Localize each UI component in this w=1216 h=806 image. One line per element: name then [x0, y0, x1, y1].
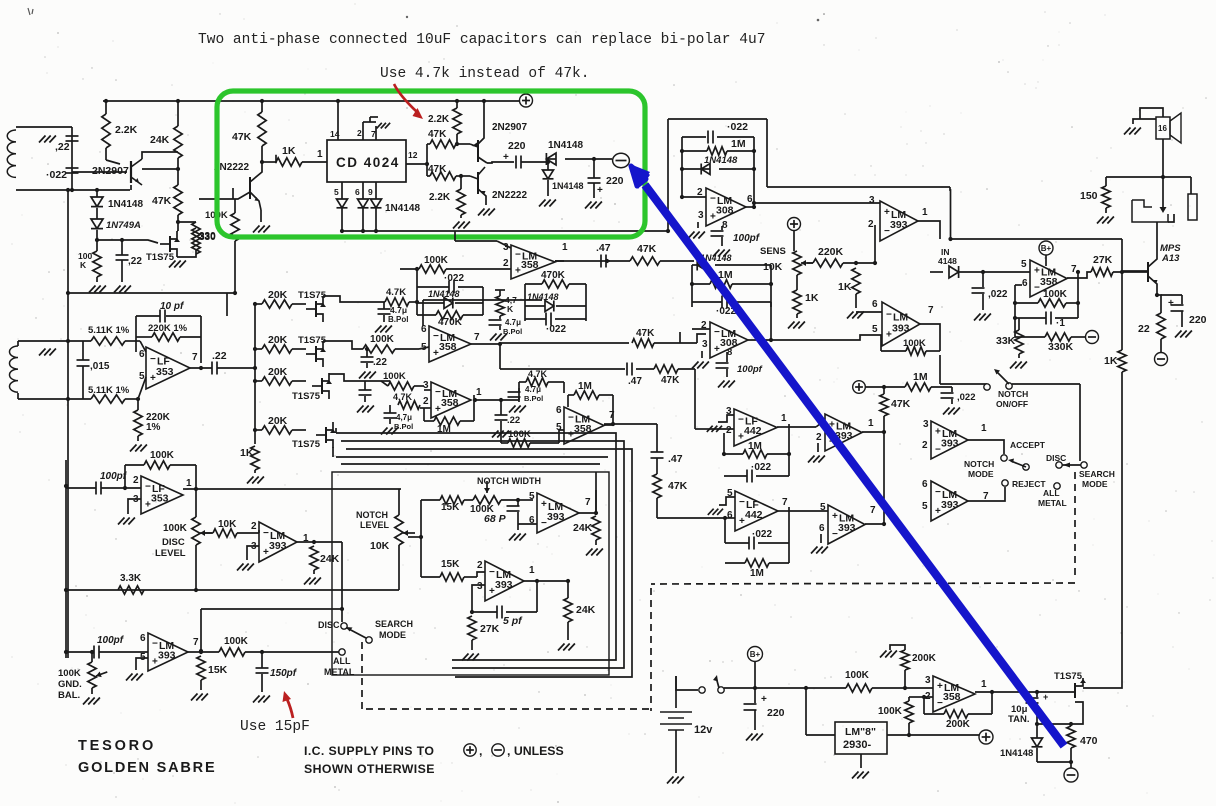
svg-text:1: 1 [981, 679, 987, 690]
svg-text:,022: ,022 [957, 392, 976, 403]
svg-text:1M: 1M [578, 381, 592, 392]
svg-text:CD 4024: CD 4024 [336, 155, 400, 170]
svg-text:6: 6 [1022, 278, 1028, 289]
svg-text:200K: 200K [946, 719, 971, 730]
svg-text:7: 7 [870, 505, 876, 516]
svg-text:3: 3 [702, 339, 708, 350]
svg-text:2.2K: 2.2K [115, 124, 138, 136]
svg-text:393: 393 [838, 522, 856, 534]
svg-text:2930-: 2930- [843, 739, 871, 751]
svg-text:358: 358 [441, 397, 459, 409]
svg-text:B.Pol: B.Pol [394, 422, 413, 431]
svg-text:220K 1%: 220K 1% [148, 323, 188, 334]
svg-text:7: 7 [192, 352, 198, 363]
svg-text:Use 4.7k instead of 47k.: Use 4.7k instead of 47k. [380, 66, 590, 82]
svg-text:100K: 100K [150, 450, 175, 461]
svg-text:14: 14 [330, 129, 340, 139]
svg-text:393: 393 [890, 219, 908, 231]
svg-text:470K: 470K [541, 270, 566, 281]
svg-text:+: + [761, 694, 767, 705]
svg-text:·022: ·022 [46, 169, 67, 181]
svg-text:NOTCH: NOTCH [964, 459, 994, 469]
svg-text:2: 2 [726, 425, 732, 436]
svg-text:−: − [738, 414, 744, 425]
svg-text:·1: ·1 [1056, 318, 1065, 329]
svg-text:ALL: ALL [1043, 488, 1060, 498]
svg-text:6: 6 [139, 349, 145, 360]
svg-text:GND.: GND. [58, 679, 82, 690]
svg-text:T1S75: T1S75 [292, 439, 321, 450]
svg-text:100K: 100K [224, 636, 249, 647]
svg-text:, UNLESS: , UNLESS [507, 744, 564, 758]
svg-text:TAN.: TAN. [1008, 714, 1029, 725]
svg-text:−: − [150, 354, 156, 365]
svg-text:1%: 1% [146, 422, 161, 433]
svg-text:I.C. SUPPLY PINS TO: I.C. SUPPLY PINS TO [304, 744, 434, 758]
svg-text:5: 5 [139, 371, 145, 382]
svg-text:·022: ·022 [546, 324, 566, 335]
svg-text:20K: 20K [268, 334, 288, 346]
svg-text:6: 6 [872, 299, 878, 310]
svg-text:100pf: 100pf [97, 635, 125, 646]
svg-text:47K: 47K [428, 164, 447, 175]
svg-text:6: 6 [355, 187, 360, 197]
svg-text:2: 2 [868, 219, 874, 230]
svg-text:1M: 1M [731, 138, 746, 150]
svg-text:1M: 1M [748, 441, 762, 452]
svg-text:4,7μ: 4,7μ [396, 413, 412, 422]
svg-text:A13: A13 [1161, 253, 1180, 264]
svg-text:1K: 1K [282, 145, 296, 157]
svg-text:12: 12 [408, 150, 418, 160]
svg-text:2: 2 [133, 475, 139, 486]
svg-text:1M: 1M [913, 371, 928, 383]
svg-text:24K: 24K [576, 604, 596, 616]
svg-text:LM"8": LM"8" [845, 726, 876, 738]
svg-text:SEARCH: SEARCH [1079, 469, 1115, 479]
svg-text:T1S75: T1S75 [298, 290, 327, 301]
svg-text:·022: ·022 [751, 462, 771, 473]
svg-text:METAL: METAL [324, 667, 355, 677]
svg-text:2.2K: 2.2K [428, 114, 450, 125]
svg-text:6: 6 [819, 523, 825, 534]
svg-text:3: 3 [925, 675, 931, 686]
svg-text:47K: 47K [668, 480, 688, 492]
svg-text:−: − [568, 412, 574, 423]
svg-text:68 P: 68 P [484, 513, 507, 525]
svg-text:GOLDEN SABRE: GOLDEN SABRE [78, 760, 216, 776]
svg-text:·022: ·022 [727, 121, 748, 133]
svg-text:K: K [80, 260, 87, 270]
svg-text:SENS: SENS [760, 246, 786, 257]
svg-text:5: 5 [872, 324, 878, 335]
svg-text:2: 2 [251, 521, 257, 532]
svg-text:470: 470 [1080, 735, 1098, 747]
svg-text:B.Pol: B.Pol [388, 315, 408, 324]
svg-text:2N2907: 2N2907 [92, 165, 129, 177]
svg-text:·022: ·022 [444, 273, 464, 284]
svg-text:9: 9 [368, 187, 373, 197]
svg-text:220: 220 [1189, 314, 1207, 326]
svg-text:MODE: MODE [1082, 479, 1108, 489]
svg-text:+: + [597, 185, 603, 196]
svg-text:4.7μ: 4.7μ [525, 385, 541, 394]
svg-text:27K: 27K [480, 623, 500, 635]
svg-text:1: 1 [186, 478, 192, 489]
svg-text:15K: 15K [441, 502, 460, 513]
svg-text:B+: B+ [1041, 244, 1052, 253]
svg-text:7: 7 [371, 129, 376, 139]
svg-text:393: 393 [892, 322, 910, 334]
svg-text:−: − [145, 482, 151, 493]
svg-text:2: 2 [816, 432, 822, 443]
svg-text:5: 5 [421, 342, 427, 353]
svg-text:2.2K: 2.2K [429, 192, 451, 203]
svg-text:3: 3 [477, 581, 483, 592]
svg-text:1K: 1K [838, 281, 852, 293]
svg-text:.22: .22 [373, 357, 387, 368]
svg-text:8: 8 [722, 220, 728, 231]
svg-text:1N4148: 1N4148 [552, 181, 584, 191]
svg-text:353: 353 [151, 492, 169, 504]
svg-text:24K: 24K [573, 522, 593, 534]
svg-text:1N4148: 1N4148 [108, 199, 143, 210]
svg-text:5.11K 1%: 5.11K 1% [88, 325, 130, 336]
svg-text:.47: .47 [596, 242, 611, 254]
svg-text:−: − [489, 567, 495, 578]
svg-text:+: + [1168, 298, 1174, 309]
svg-text:100K: 100K [163, 523, 188, 534]
svg-text:2N2907: 2N2907 [492, 122, 527, 133]
svg-text:3: 3 [698, 210, 704, 221]
svg-text:353: 353 [156, 366, 174, 378]
svg-text:150pf: 150pf [270, 668, 298, 679]
svg-text:+: + [832, 511, 838, 522]
svg-text:100K: 100K [845, 670, 870, 681]
svg-text:47K: 47K [661, 375, 680, 386]
svg-text:47K: 47K [891, 398, 911, 410]
svg-text:B.Pol: B.Pol [503, 327, 522, 336]
svg-text:+: + [935, 427, 941, 438]
svg-text:T1S75: T1S75 [292, 391, 321, 402]
svg-text:1: 1 [868, 418, 874, 429]
svg-text:+: + [541, 499, 547, 510]
svg-text:DISC: DISC [162, 537, 185, 548]
svg-text:200K: 200K [912, 653, 937, 664]
svg-text:2: 2 [477, 560, 483, 571]
svg-text:358: 358 [1040, 276, 1058, 288]
svg-text:1: 1 [317, 149, 323, 160]
svg-text:1: 1 [781, 413, 787, 424]
svg-text:100K: 100K [878, 706, 903, 717]
svg-text:NOTCH: NOTCH [356, 510, 388, 520]
svg-text:47K: 47K [428, 129, 447, 140]
svg-text:220: 220 [767, 707, 785, 719]
svg-text:6: 6 [421, 324, 427, 335]
svg-text:220: 220 [606, 175, 624, 187]
svg-text:Two anti-phase connected 10uF: Two anti-phase connected 10uF capacitors… [198, 32, 765, 48]
svg-text:100pf: 100pf [100, 471, 128, 482]
svg-text:100K: 100K [1043, 289, 1068, 300]
svg-text:393: 393 [941, 437, 959, 449]
svg-text:DISC: DISC [318, 620, 340, 630]
svg-text:24K: 24K [150, 134, 170, 146]
svg-text:1N4148: 1N4148 [1000, 748, 1033, 759]
svg-text:5 pf: 5 pf [503, 615, 523, 627]
svg-text:47K: 47K [636, 328, 655, 339]
svg-text:6: 6 [727, 510, 733, 521]
svg-text:K: K [507, 304, 514, 314]
svg-text:393: 393 [269, 540, 287, 552]
svg-text:.22: .22 [507, 415, 520, 426]
svg-text:.22: .22 [212, 350, 227, 362]
svg-text:5: 5 [1021, 259, 1027, 270]
svg-text:2: 2 [922, 440, 928, 451]
svg-text:4.7K: 4.7K [386, 287, 406, 298]
svg-text:1: 1 [529, 565, 535, 576]
svg-text:15K: 15K [208, 664, 228, 676]
svg-text:7: 7 [1071, 264, 1077, 275]
svg-text:+: + [1034, 265, 1040, 276]
svg-text:358: 358 [521, 259, 539, 271]
svg-text:1K: 1K [240, 447, 254, 459]
svg-text:1N4148: 1N4148 [428, 289, 460, 299]
svg-text:1N4148: 1N4148 [385, 203, 420, 214]
svg-text:1N749A: 1N749A [106, 220, 141, 231]
svg-text:47K: 47K [637, 243, 657, 255]
svg-text:100K: 100K [424, 255, 449, 266]
svg-text:4.7K: 4.7K [393, 392, 413, 402]
svg-text:7: 7 [474, 332, 480, 343]
svg-text:4.7μ: 4.7μ [390, 305, 407, 315]
svg-text:100K: 100K [383, 371, 406, 382]
svg-text:1: 1 [562, 242, 568, 253]
svg-text:15K: 15K [441, 559, 460, 570]
svg-text:1M: 1M [750, 568, 764, 579]
svg-text:5: 5 [529, 491, 535, 502]
svg-text:SEARCH: SEARCH [375, 619, 413, 629]
svg-text:20K: 20K [268, 366, 288, 378]
svg-text:SHOWN OTHERWISE: SHOWN OTHERWISE [304, 762, 435, 776]
svg-text:·022: ·022 [752, 529, 772, 540]
svg-text:4.7μ: 4.7μ [505, 318, 521, 327]
svg-text:27K: 27K [1093, 254, 1113, 266]
svg-text:−: − [739, 497, 745, 508]
svg-text:393: 393 [547, 511, 565, 523]
svg-text:220K: 220K [818, 246, 844, 258]
svg-text:47K: 47K [232, 131, 252, 143]
svg-text:442: 442 [745, 509, 763, 521]
svg-text:1N4148: 1N4148 [704, 155, 738, 166]
svg-text:442: 442 [744, 425, 762, 437]
svg-text:5.11K 1%: 5.11K 1% [88, 385, 130, 396]
svg-text:T1S75: T1S75 [1054, 671, 1083, 682]
svg-text:308: 308 [716, 204, 734, 216]
svg-text:4.7K: 4.7K [528, 369, 548, 379]
svg-text:.47: .47 [628, 376, 642, 387]
svg-text:358: 358 [439, 341, 457, 353]
svg-text:−: − [152, 639, 158, 650]
svg-text:METAL: METAL [1038, 498, 1067, 508]
svg-text:10 pf: 10 pf [160, 301, 185, 312]
svg-text:Use 15pF: Use 15pF [240, 719, 310, 735]
svg-text:2N2222: 2N2222 [492, 190, 527, 201]
svg-text:TESORO: TESORO [78, 738, 156, 754]
svg-text:22: 22 [1138, 323, 1150, 335]
svg-text:DISC: DISC [1046, 453, 1066, 463]
svg-text:ON/OFF: ON/OFF [996, 399, 1028, 409]
svg-text:100pf: 100pf [733, 233, 761, 244]
svg-text:1: 1 [476, 387, 482, 398]
svg-text:470K: 470K [438, 317, 463, 328]
svg-text:393: 393 [495, 579, 513, 591]
svg-text:10K: 10K [370, 540, 390, 552]
svg-text:1N4148: 1N4148 [548, 140, 583, 151]
svg-text:7: 7 [928, 305, 934, 316]
svg-text:4148: 4148 [938, 256, 957, 266]
svg-text:LEVEL: LEVEL [155, 548, 186, 559]
svg-text:+: + [1043, 692, 1048, 702]
svg-text:7: 7 [782, 497, 788, 508]
svg-text:B.Pol: B.Pol [524, 394, 543, 403]
svg-text:7: 7 [193, 637, 199, 648]
svg-text:,022: ,022 [988, 289, 1008, 300]
svg-text:2: 2 [423, 396, 429, 407]
svg-text:20K: 20K [268, 289, 288, 301]
svg-text:1: 1 [981, 423, 987, 434]
svg-text:100K: 100K [58, 668, 81, 679]
svg-text:B+: B+ [750, 650, 761, 659]
svg-text:LEVEL: LEVEL [360, 520, 390, 530]
svg-text:MODE: MODE [968, 469, 994, 479]
svg-text:5: 5 [334, 187, 339, 197]
svg-text:330K: 330K [1048, 341, 1074, 353]
svg-text:1: 1 [922, 207, 928, 218]
svg-text:7: 7 [585, 497, 591, 508]
svg-text:ACCEPT: ACCEPT [1010, 440, 1046, 450]
svg-text:100K: 100K [508, 429, 531, 440]
svg-text:393: 393 [158, 649, 176, 661]
svg-text:5: 5 [922, 501, 928, 512]
svg-text:24K: 24K [320, 553, 340, 565]
svg-text:150: 150 [1080, 190, 1098, 202]
svg-text:16: 16 [1158, 124, 1167, 133]
svg-text:,: , [479, 744, 482, 758]
svg-text:47K: 47K [152, 195, 172, 207]
svg-text:NOTCH: NOTCH [998, 389, 1028, 399]
svg-text:BAL.: BAL. [58, 690, 80, 701]
svg-text:7: 7 [609, 410, 615, 421]
svg-text:10K: 10K [763, 261, 783, 273]
svg-text:3: 3 [869, 195, 875, 206]
svg-text:3: 3 [923, 419, 929, 430]
svg-text:ALL: ALL [333, 656, 351, 666]
svg-text:−: − [935, 487, 941, 498]
svg-text:−: − [710, 194, 716, 205]
svg-text:,22: ,22 [55, 141, 70, 153]
svg-text:2: 2 [503, 258, 509, 269]
svg-text:220: 220 [508, 140, 526, 152]
svg-text:MODE: MODE [379, 630, 406, 640]
svg-text:1K: 1K [1104, 355, 1118, 367]
svg-text:2: 2 [357, 128, 362, 138]
svg-text:T1S75: T1S75 [146, 252, 175, 263]
svg-text:12v: 12v [694, 724, 713, 736]
svg-text:33K: 33K [996, 335, 1016, 347]
svg-text:1N4148: 1N4148 [527, 292, 559, 302]
svg-text:−: − [886, 309, 892, 320]
svg-text:T1S75: T1S75 [298, 335, 327, 346]
svg-text:+: + [503, 152, 509, 163]
svg-text:REJECT: REJECT [1012, 479, 1046, 489]
svg-text:1K: 1K [805, 292, 819, 304]
svg-text:6: 6 [140, 633, 146, 644]
svg-text:100K: 100K [903, 338, 926, 349]
svg-text:+: + [884, 207, 890, 218]
svg-text:,22: ,22 [128, 256, 142, 267]
svg-text:358: 358 [943, 691, 961, 703]
svg-text:.47: .47 [668, 453, 683, 465]
svg-text:6: 6 [922, 479, 928, 490]
svg-text:10K: 10K [218, 519, 237, 530]
svg-text:,015: ,015 [90, 361, 110, 372]
svg-text:393: 393 [941, 499, 959, 511]
svg-text:3.3K: 3.3K [120, 573, 142, 584]
svg-text:5: 5 [820, 502, 826, 513]
svg-text:100pf: 100pf [737, 364, 763, 375]
svg-text:100K: 100K [370, 334, 395, 345]
svg-text:330: 330 [199, 232, 216, 243]
svg-text:−: − [263, 528, 269, 539]
svg-text:20K: 20K [268, 415, 288, 427]
svg-text:6: 6 [556, 405, 562, 416]
